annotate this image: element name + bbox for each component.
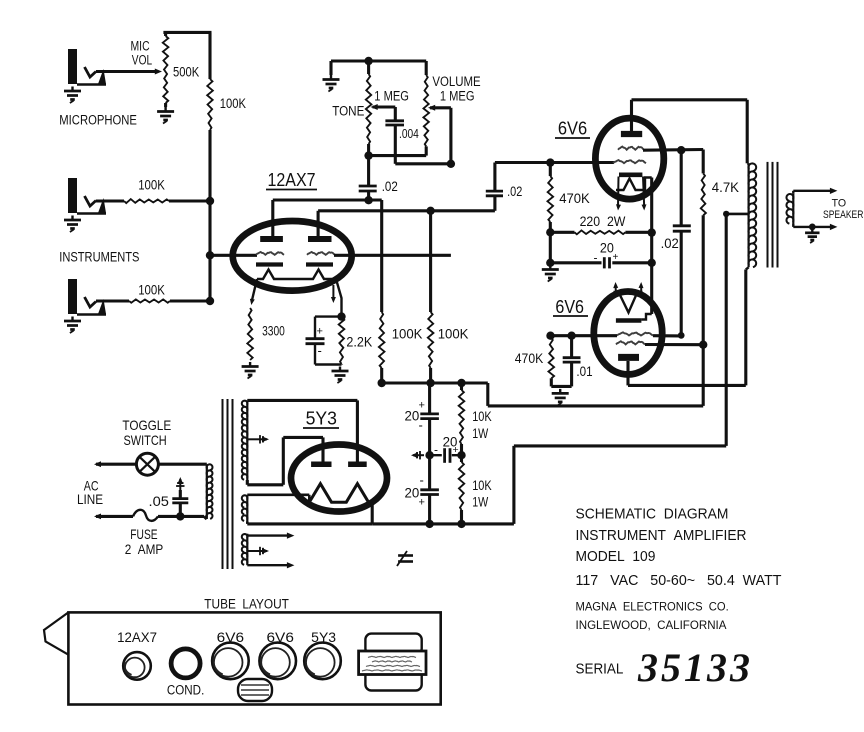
svg-text:12AX7: 12AX7 [117, 630, 157, 645]
svg-text:+: + [613, 252, 619, 263]
svg-text:+: + [453, 444, 459, 456]
svg-text:COND.: COND. [167, 683, 204, 698]
svg-text:5Y3: 5Y3 [306, 408, 337, 428]
svg-text:VOL: VOL [132, 53, 153, 68]
svg-text:+: + [419, 400, 425, 412]
svg-text:-: - [419, 418, 423, 433]
svg-text:20: 20 [405, 486, 420, 501]
svg-text:+: + [317, 326, 323, 338]
svg-text:2 AMP: 2 AMP [125, 542, 164, 557]
svg-text:100K: 100K [438, 327, 470, 342]
svg-text:.02: .02 [661, 236, 679, 251]
svg-text:6V6: 6V6 [555, 297, 584, 317]
svg-text:+: + [419, 497, 425, 509]
svg-text:5Y3: 5Y3 [311, 630, 336, 645]
svg-text:-: - [434, 443, 438, 457]
svg-text:470K: 470K [515, 351, 543, 366]
svg-text:-: - [420, 473, 424, 488]
svg-text:.004: .004 [399, 127, 419, 141]
svg-text:.05: .05 [149, 494, 170, 509]
svg-text:SCHEMATIC DIAGRAM: SCHEMATIC DIAGRAM [576, 507, 729, 523]
svg-text:6V6: 6V6 [267, 630, 294, 645]
svg-text:1 MEG: 1 MEG [440, 89, 475, 104]
svg-text:VOLUME: VOLUME [432, 74, 480, 89]
svg-text:1 MEG: 1 MEG [374, 89, 409, 104]
svg-text:TONE: TONE [332, 104, 364, 119]
svg-text:MICROPHONE: MICROPHONE [59, 112, 137, 127]
svg-text:.02: .02 [507, 184, 522, 199]
svg-text:100K: 100K [220, 96, 247, 111]
svg-text:SERIAL: SERIAL [576, 662, 624, 678]
svg-text:SPEAKER: SPEAKER [823, 209, 863, 221]
svg-text:6V6: 6V6 [558, 118, 587, 138]
svg-text:LINE: LINE [77, 492, 103, 507]
svg-text:100K: 100K [392, 327, 424, 342]
svg-text:-: - [594, 251, 598, 265]
svg-text:100K: 100K [138, 283, 165, 298]
svg-text:6V6: 6V6 [217, 630, 244, 645]
svg-text:.02: .02 [382, 179, 398, 194]
svg-text:100K: 100K [138, 177, 165, 192]
svg-text:SWITCH: SWITCH [124, 433, 167, 448]
svg-text:MIC: MIC [131, 39, 150, 54]
svg-text:10K: 10K [472, 478, 492, 493]
svg-text:35133: 35133 [637, 645, 753, 690]
svg-text:220 2W: 220 2W [580, 214, 626, 229]
svg-text:TOGGLE: TOGGLE [122, 418, 171, 433]
svg-text:500K: 500K [173, 65, 200, 80]
svg-text:470K: 470K [559, 191, 590, 206]
svg-text:1W: 1W [472, 426, 488, 441]
svg-text:117 VAC 50-60~ 50.4 WAT: 117 VAC 50-60~ 50.4 WATT [576, 573, 782, 589]
svg-text:TUBE LAYOUT: TUBE LAYOUT [204, 597, 289, 612]
svg-text:MAGNA ELECTRONICS CO.: MAGNA ELECTRONICS CO. [576, 600, 729, 614]
svg-text:4.7K: 4.7K [712, 180, 740, 195]
svg-text:2.2K: 2.2K [346, 335, 373, 350]
svg-text:INSTRUMENT AMPLIFIER: INSTRUMENT AMPLIFIER [576, 528, 747, 544]
svg-text:MODEL 109: MODEL 109 [576, 549, 656, 565]
svg-text:3300: 3300 [262, 323, 285, 338]
svg-text:.01: .01 [576, 364, 592, 379]
svg-text:INGLEWOOD, CALIFORNIA: INGLEWOOD, CALIFORNIA [576, 618, 727, 632]
svg-text:12AX7: 12AX7 [268, 170, 316, 190]
svg-text:TO: TO [832, 198, 847, 210]
svg-text:1W: 1W [472, 495, 488, 510]
svg-text:-: - [318, 343, 322, 358]
svg-text:20: 20 [405, 409, 420, 424]
svg-text:INSTRUMENTS: INSTRUMENTS [59, 250, 139, 265]
svg-text:FUSE: FUSE [130, 527, 157, 542]
svg-text:10K: 10K [472, 409, 492, 424]
